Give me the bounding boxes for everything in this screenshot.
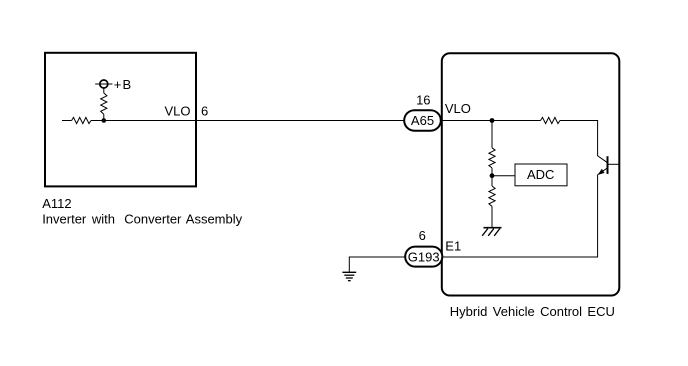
svg-text:G193: G193 <box>408 249 440 264</box>
svg-text:A65: A65 <box>411 113 434 128</box>
svg-text:A112: A112 <box>42 196 71 211</box>
svg-text:16: 16 <box>416 93 430 108</box>
svg-text:Converter Assembly: Converter Assembly <box>124 211 242 226</box>
svg-text:E1: E1 <box>445 238 461 253</box>
svg-text:Hybrid Vehicle Control ECU: Hybrid Vehicle Control ECU <box>450 304 615 319</box>
svg-text:6: 6 <box>419 228 426 243</box>
svg-text:VLO: VLO <box>164 103 190 118</box>
svg-text:+B: +B <box>114 77 133 92</box>
svg-text:VLO: VLO <box>445 101 471 116</box>
svg-text:ADC: ADC <box>527 167 554 182</box>
svg-text:6: 6 <box>201 103 208 118</box>
svg-text:Inverter with: Inverter with <box>42 211 115 226</box>
